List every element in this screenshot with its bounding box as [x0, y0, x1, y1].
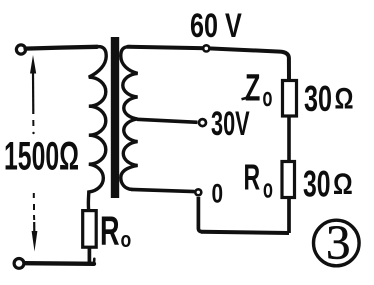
- measurement arrow (1500 ohm span): [30, 55, 37, 252]
- svg-text:R: R: [100, 209, 120, 254]
- svg-text:30: 30: [304, 79, 332, 120]
- svg-text:o: o: [263, 82, 273, 112]
- wire (top-left terminal to primary top): [26, 47, 98, 49]
- wire (R0 left bottom lead): [88, 247, 92, 262]
- wire (R0 right bottom lead): [287, 198, 291, 234]
- transformer T secondary winding: [121, 47, 138, 190]
- node 0 terminal: [195, 189, 201, 195]
- terminal (bottom-left): [14, 259, 24, 269]
- svg-text:0: 0: [212, 179, 224, 209]
- svg-text:R: R: [244, 159, 261, 198]
- label 30Ω (upper): [304, 79, 353, 120]
- wire (secondary tap to 30V node): [137, 119, 198, 122]
- label 30Ω (lower): [303, 162, 353, 204]
- svg-text:o: o: [263, 173, 273, 203]
- wire (Z0 to R0 right): [287, 116, 291, 162]
- node 60V terminal: [203, 45, 209, 51]
- svg-text:Z: Z: [245, 66, 260, 108]
- transformer T core: [111, 37, 119, 198]
- wire (secondary top to right branch corner): [128, 47, 289, 81]
- label R0 (left): [100, 209, 131, 254]
- wire (secondary bottom to 0 node): [131, 189, 195, 191]
- wire (bottom-left run): [25, 261, 94, 266]
- label Z0: [242, 66, 273, 112]
- label R0 (right): [244, 159, 273, 204]
- svg-text:3: 3: [326, 215, 351, 270]
- resistor R0 (left): [83, 211, 97, 248]
- svg-text:o: o: [121, 228, 132, 252]
- svg-text:1500Ω: 1500Ω: [4, 135, 79, 179]
- svg-text:Ω: Ω: [335, 82, 354, 115]
- wire (0 node down): [198, 197, 202, 232]
- wire (bottom run to R0 branch): [201, 232, 289, 233]
- transformer T primary winding: [88, 47, 106, 210]
- figure number 3 (circled): [314, 215, 360, 270]
- resistor R0 (right): [282, 162, 295, 198]
- svg-text:Ω: Ω: [333, 167, 353, 201]
- node 30V terminal: [199, 119, 206, 126]
- terminal (top-left input): [16, 45, 25, 54]
- resistor Z0: [283, 81, 297, 117]
- svg-text:30V: 30V: [211, 105, 250, 143]
- svg-text:60 V: 60 V: [190, 7, 242, 45]
- svg-text:30: 30: [303, 162, 331, 204]
